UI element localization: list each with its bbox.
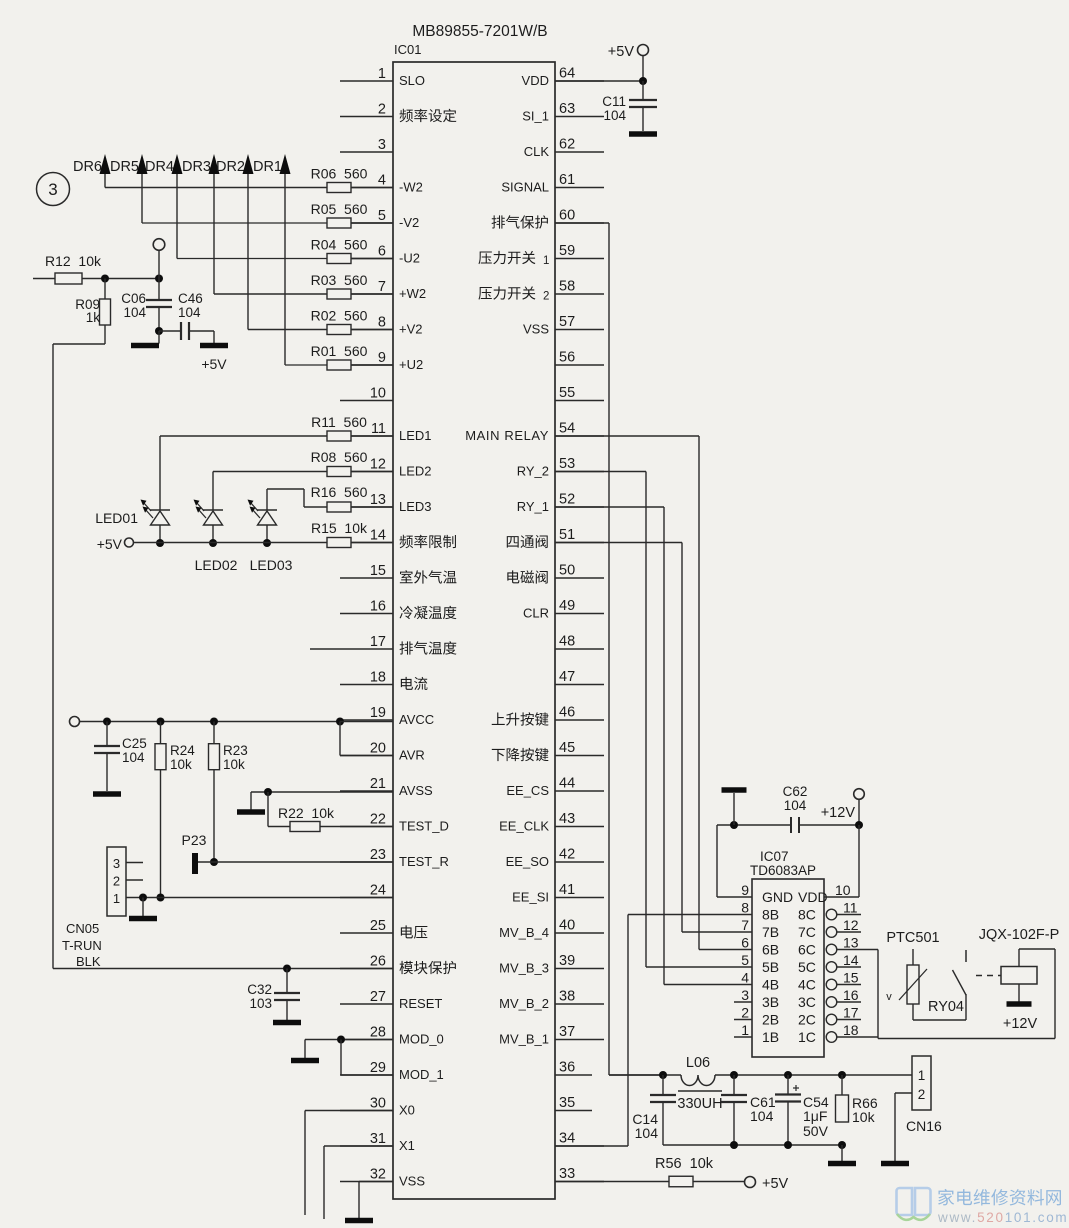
LED LED01: [95, 500, 170, 548]
svg-text:9: 9: [741, 882, 749, 898]
svg-text:EE_SI: EE_SI: [512, 890, 549, 905]
svg-text:64: 64: [559, 66, 575, 82]
capacitor C11 104: [602, 81, 657, 131]
svg-text:GND: GND: [762, 889, 793, 905]
IC01 pin 41 EE_SI: [512, 882, 604, 905]
svg-text:MV_B_1: MV_B_1: [499, 1032, 549, 1047]
svg-text:EE_CLK: EE_CLK: [499, 819, 549, 834]
ground at VSS pin32: [345, 1218, 373, 1224]
wire R12 to node A: [82, 275, 159, 283]
svg-text:40: 40: [559, 918, 575, 934]
svg-text:19: 19: [370, 705, 386, 721]
svg-text:54: 54: [559, 421, 575, 437]
svg-text:104: 104: [178, 305, 201, 320]
ground under CN16 pin2: [881, 1161, 909, 1167]
ground under C25: [93, 791, 121, 797]
diode phase-drive line DR3 (arrow up): [182, 154, 220, 294]
IC07 pin 7 7B: [741, 917, 779, 940]
svg-text:SI_1: SI_1: [522, 109, 549, 124]
svg-text:6: 6: [378, 244, 386, 260]
svg-text:330UH: 330UH: [677, 1096, 722, 1112]
wire pin51 four-way-valve to 7B: [555, 543, 752, 933]
wire pin23 TEST_R: [198, 861, 393, 863]
IC01 pin 46 上升按键: [492, 705, 604, 726]
svg-text:3C: 3C: [798, 994, 816, 1010]
IC01 pin 56: [555, 350, 604, 366]
diode phase-drive line DR4 (arrow up): [145, 154, 183, 259]
svg-text:R01 560: R01 560: [311, 343, 368, 359]
ground at IC07 GND: [722, 787, 747, 829]
resistor R04 560: [311, 237, 393, 264]
svg-text:IC01: IC01: [394, 42, 421, 57]
svg-text:8: 8: [741, 900, 749, 916]
svg-text:X0: X0: [399, 1103, 415, 1118]
IC01 pin 28 MOD_0: [340, 1025, 444, 1047]
svg-text:14: 14: [370, 528, 386, 544]
relay JQX-102F-P label: [979, 927, 1060, 943]
svg-text:4: 4: [741, 970, 749, 986]
connector CN16: [906, 1056, 942, 1134]
svg-text:45: 45: [559, 740, 575, 756]
diode phase-drive line DR1 (arrow up): [253, 154, 291, 365]
IC07 pin 1 1B: [734, 1022, 779, 1045]
svg-text:www.520101.com: www.520101.com: [937, 1210, 1068, 1225]
svg-text:33: 33: [559, 1166, 575, 1182]
svg-text:PTC501: PTC501: [886, 930, 939, 946]
svg-text:C11: C11: [602, 94, 626, 109]
svg-text:104: 104: [123, 305, 146, 320]
+5V rail bar under C46: [200, 331, 228, 372]
svg-text:6C: 6C: [798, 942, 816, 958]
svg-text:44: 44: [559, 776, 575, 792]
wire DR2 to R02: [248, 329, 327, 331]
IC01 pin 63 SI_1: [522, 101, 604, 124]
IC01 pin 45 下降按键: [492, 740, 604, 761]
svg-text:3: 3: [48, 180, 57, 199]
wire DR4 to R04: [177, 258, 327, 260]
+5V terminal for LEDs: [97, 536, 134, 552]
relay coil RY04/JQX: [1001, 967, 1037, 985]
svg-text:1: 1: [378, 66, 386, 82]
svg-text:15: 15: [370, 563, 386, 579]
+5V terminal top right: [608, 44, 649, 60]
IC01 pin 1 SLO: [340, 66, 425, 88]
svg-text:+5V: +5V: [201, 356, 227, 372]
svg-text:LED02: LED02: [195, 557, 238, 573]
IC U2: IC07 TD6083AP body: [750, 849, 824, 1057]
svg-text:-V2: -V2: [399, 215, 419, 230]
svg-text:+5V: +5V: [608, 44, 635, 60]
svg-text:BLK: BLK: [76, 954, 101, 969]
resistor R23 10k: [209, 722, 248, 773]
IC01 pin 19 AVCC: [340, 705, 434, 727]
svg-text:13: 13: [370, 492, 386, 508]
svg-text:8: 8: [378, 315, 386, 331]
svg-text:3: 3: [741, 987, 749, 1003]
IC01 pin 60 排气保护: [492, 208, 604, 229]
IC01 pin 30 X0: [340, 1096, 415, 1118]
svg-text:24: 24: [370, 883, 386, 899]
relay contact RY04: [928, 950, 966, 1015]
+12V terminal at IC07 VDD: [821, 789, 865, 829]
wire pin11 to LED01: [160, 436, 327, 510]
svg-text:9: 9: [378, 350, 386, 366]
IC01 pin 23 TEST_R: [340, 847, 449, 869]
svg-text:C62: C62: [783, 784, 808, 799]
svg-text:R05 560: R05 560: [311, 201, 368, 217]
svg-text:LED2: LED2: [399, 464, 432, 479]
svg-text:16: 16: [370, 599, 386, 615]
svg-text:JQX-102F-P: JQX-102F-P: [979, 927, 1060, 943]
IC01 pin 18 电流: [340, 670, 427, 691]
IC01 pin 44 EE_CS: [506, 776, 604, 799]
svg-text:32: 32: [370, 1167, 386, 1183]
svg-text:R03 560: R03 560: [311, 272, 368, 288]
IC01 pin 31 X1: [340, 1131, 415, 1153]
svg-text:-W2: -W2: [399, 180, 423, 195]
IC01 pin 36: [555, 1060, 592, 1076]
svg-text:MOD_0: MOD_0: [399, 1032, 444, 1047]
IC01 pin 35: [555, 1095, 592, 1111]
svg-text:16: 16: [843, 987, 859, 1003]
svg-text:DR3: DR3: [182, 159, 211, 175]
svg-text:55: 55: [559, 385, 575, 401]
svg-text:5C: 5C: [798, 959, 816, 975]
resistor R02 560: [311, 308, 393, 335]
wire pin13 to LED03: [267, 489, 327, 510]
resistor R56 10k: [655, 1156, 714, 1187]
svg-text:51: 51: [559, 527, 575, 543]
svg-text:1: 1: [113, 891, 120, 906]
svg-text:MV_B_2: MV_B_2: [499, 996, 549, 1011]
svg-text:60: 60: [559, 208, 575, 224]
svg-text:IC07: IC07: [760, 849, 789, 864]
wire MOD_1 branch pin29: [341, 1040, 393, 1076]
svg-text:14: 14: [843, 952, 859, 968]
+5V terminal at R56: [693, 1176, 789, 1192]
svg-text:LED03: LED03: [250, 557, 293, 573]
IC07 pin 11 8C: [798, 900, 861, 923]
svg-text:63: 63: [559, 101, 575, 117]
svg-text:4B: 4B: [762, 977, 779, 993]
wire DR5 to R05: [142, 222, 327, 224]
svg-text:DR4: DR4: [145, 159, 174, 175]
svg-text:10k: 10k: [852, 1109, 876, 1125]
svg-text:2: 2: [113, 874, 120, 889]
IC01 pin 34: [555, 1131, 604, 1147]
IC01 pin 4 -W2: [340, 173, 423, 195]
svg-text:2: 2: [741, 1005, 749, 1021]
IC01 pin 20 AVR: [340, 741, 425, 763]
svg-text:58: 58: [559, 279, 575, 295]
resistor R16 560: [311, 484, 393, 512]
resistor R24 10k: [155, 722, 195, 773]
svg-text:T-RUN: T-RUN: [62, 938, 102, 953]
svg-text:AVCC: AVCC: [399, 712, 434, 727]
svg-text:10k: 10k: [223, 757, 245, 772]
svg-text:21: 21: [370, 776, 386, 792]
IC01 pin 7 +W2: [340, 279, 426, 301]
svg-text:104: 104: [603, 108, 626, 123]
IC01 pin 47: [555, 669, 604, 685]
capacitor C32 103: [247, 969, 300, 1021]
svg-text:C06: C06: [121, 291, 146, 306]
ground at MOD_0: [291, 1040, 319, 1064]
IC01 pin 8 +V2: [340, 315, 423, 337]
IC01 pin 29 MOD_1: [340, 1060, 444, 1082]
IC01 pin 17 排气温度: [340, 634, 456, 655]
ground under R66: [828, 1145, 856, 1166]
IC07 pin 14 5C: [798, 952, 861, 975]
LED LED02: [194, 500, 238, 574]
svg-text:+12V: +12V: [1003, 1016, 1038, 1032]
svg-text:AVSS: AVSS: [399, 783, 433, 798]
IC07 pin 16 3C: [798, 987, 861, 1010]
svg-text:53: 53: [559, 456, 575, 472]
capacitor C14 104: [632, 1075, 676, 1145]
IC01 pin 16 冷凝温度: [340, 599, 456, 620]
svg-text:30: 30: [370, 1096, 386, 1112]
IC07 pin 12 7C: [798, 917, 861, 940]
svg-text:C46: C46: [178, 291, 203, 306]
wire DR1 to R01: [285, 364, 327, 366]
wire R23 to pin23 net: [210, 770, 218, 867]
svg-text:MOD_1: MOD_1: [399, 1067, 444, 1082]
svg-text:5: 5: [378, 208, 386, 224]
IC01 pin 50 电磁阀: [507, 563, 604, 584]
svg-text:MV_B_3: MV_B_3: [499, 961, 549, 976]
svg-text:26: 26: [370, 954, 386, 970]
svg-text:+U2: +U2: [399, 357, 423, 372]
svg-text:5B: 5B: [762, 959, 779, 975]
svg-text:1k: 1k: [86, 310, 101, 325]
svg-text:+W2: +W2: [399, 286, 426, 301]
wire pin17 stub extension: [310, 648, 340, 650]
wire VDD pin64 node: [555, 56, 647, 86]
resistor R11 560: [311, 414, 393, 441]
test point P23: [182, 832, 207, 874]
svg-text:7C: 7C: [798, 924, 816, 940]
LED LED03: [248, 500, 293, 574]
wire CN16 pin2 to ground: [895, 1093, 912, 1161]
IC01 pin 64 VDD: [522, 66, 604, 89]
diode phase-drive line DR6 (arrow up): [73, 154, 111, 188]
svg-text:R11 560: R11 560: [311, 414, 367, 430]
svg-text:17: 17: [843, 1005, 859, 1021]
svg-text:1: 1: [741, 1022, 749, 1038]
svg-text:SIGNAL: SIGNAL: [501, 180, 549, 195]
svg-text:104: 104: [750, 1108, 774, 1124]
svg-text:VSS: VSS: [523, 322, 549, 337]
IC01 pin 13 LED3: [340, 492, 432, 514]
svg-text:39: 39: [559, 953, 575, 969]
svg-text:v: v: [886, 991, 892, 1003]
wire DR6 to R06: [105, 187, 327, 189]
inductor L06 330UH: [677, 1055, 722, 1112]
svg-text:10: 10: [835, 882, 851, 898]
connector CN05: [62, 847, 143, 969]
terminal (open) AVCC: [70, 717, 80, 727]
IC01 pin 59 压力开关: [478, 243, 604, 267]
svg-text:RY_2: RY_2: [517, 464, 549, 479]
svg-text:8B: 8B: [762, 907, 779, 923]
svg-text:EE_SO: EE_SO: [506, 854, 549, 869]
IC01 pin 55: [555, 385, 604, 401]
svg-text:2: 2: [918, 1087, 926, 1102]
svg-text:R02 560: R02 560: [311, 308, 368, 324]
IC07 pin 5 5B: [741, 952, 779, 975]
node A junction: [155, 275, 163, 283]
dashed mechanical link: [976, 975, 1001, 977]
wire DR3 to R03: [214, 293, 327, 295]
ground at AVSS: [237, 792, 265, 815]
svg-text:12: 12: [370, 457, 386, 473]
IC01 pin 58 压力开关: [478, 279, 604, 303]
svg-text:EE_CS: EE_CS: [506, 783, 549, 798]
svg-text:2: 2: [543, 291, 549, 303]
svg-text:1C: 1C: [798, 1029, 816, 1045]
resistor R22 10k: [268, 792, 393, 832]
svg-text:R23: R23: [223, 743, 248, 758]
svg-text:52: 52: [559, 492, 575, 508]
svg-text:59: 59: [559, 243, 575, 259]
svg-text:R12 10k: R12 10k: [45, 253, 102, 269]
ground under C32: [273, 1020, 301, 1026]
wire R24 to pin24 net: [157, 770, 165, 902]
svg-text:3: 3: [378, 137, 386, 153]
svg-text:L06: L06: [686, 1055, 710, 1071]
svg-text:VDD: VDD: [798, 889, 828, 905]
svg-text:1B: 1B: [762, 1029, 779, 1045]
svg-text:CN16: CN16: [906, 1118, 942, 1134]
svg-text:+12V: +12V: [821, 805, 856, 821]
IC07 pin 6 6B: [741, 935, 779, 958]
resistor R66 10k: [836, 1075, 878, 1125]
svg-text:7B: 7B: [762, 924, 779, 940]
svg-text:R22 10k: R22 10k: [278, 805, 335, 821]
IC07 pin 8 8B: [741, 900, 779, 923]
svg-text:7: 7: [741, 917, 749, 933]
ground under CN05 pin1: [129, 898, 157, 922]
IC07 pin 13 6C: [798, 935, 878, 958]
wire L06 node rail: [609, 1071, 912, 1079]
wire pin28 MOD_0: [305, 1036, 393, 1044]
IC01 pin 51 四通阀: [507, 527, 604, 548]
wire left bus down to pin 26 net: [52, 344, 54, 969]
IC01 pin 6 -U2: [340, 244, 420, 266]
svg-text:50: 50: [559, 563, 575, 579]
svg-text:27: 27: [370, 989, 386, 1005]
svg-text:4C: 4C: [798, 977, 816, 993]
svg-text:62: 62: [559, 137, 575, 153]
svg-text:3: 3: [113, 856, 120, 871]
IC01 pin 5 -V2: [340, 208, 419, 230]
svg-text:15: 15: [843, 970, 859, 986]
svg-text:CLK: CLK: [524, 144, 550, 159]
svg-text:1: 1: [918, 1068, 926, 1083]
svg-text:DR1: DR1: [253, 159, 282, 175]
svg-text:MB89855-7201W/B: MB89855-7201W/B: [412, 23, 547, 40]
svg-text:R15 10k: R15 10k: [311, 520, 368, 536]
resistor R01 560: [311, 343, 393, 370]
IC01 pin 14 频率限制: [340, 528, 456, 549]
svg-text:1: 1: [543, 255, 549, 267]
IC07 pin 4 4B: [741, 970, 779, 993]
svg-text:2B: 2B: [762, 1012, 779, 1028]
IC07 pin 9 GND: [741, 882, 793, 905]
IC07 pin 3 3B: [734, 987, 779, 1010]
IC01 pin 43 EE_CLK: [499, 811, 604, 834]
wire pin60 bus down to L06 node: [555, 223, 663, 1075]
wire pin53 RY_2 to 5B: [555, 472, 752, 968]
wire pin31 X1 down: [324, 1146, 393, 1219]
wire pin54 MAIN RELAY to 6B: [555, 436, 752, 950]
capacitor C46 104: [159, 291, 214, 340]
svg-text:MV_B_4: MV_B_4: [499, 925, 549, 940]
svg-text:43: 43: [559, 811, 575, 827]
svg-text:TD6083AP: TD6083AP: [750, 863, 816, 878]
svg-text:+5V: +5V: [97, 536, 123, 552]
IC01 pin 27 RESET: [340, 989, 442, 1011]
svg-text:RY_1: RY_1: [517, 499, 549, 514]
svg-text:R16 560: R16 560: [311, 484, 368, 500]
svg-text:VDD: VDD: [522, 73, 549, 88]
sheet node circle 3: [37, 173, 70, 206]
svg-text:CLR: CLR: [523, 606, 549, 621]
svg-text:DR6: DR6: [73, 159, 102, 175]
svg-text:4: 4: [378, 173, 386, 189]
svg-text:104: 104: [635, 1125, 659, 1141]
svg-text:28: 28: [370, 1025, 386, 1041]
wire pin52 RY_1 to 4B: [555, 507, 752, 985]
IC01 pin 62 CLK: [524, 137, 604, 160]
resistor R12 10k: [45, 253, 102, 284]
svg-text:12: 12: [843, 917, 859, 933]
svg-text:+5V: +5V: [762, 1176, 789, 1192]
svg-text:11: 11: [371, 421, 386, 437]
IC01 pin 9 +U2: [340, 350, 423, 372]
IC01 pin 12 LED2: [340, 457, 432, 479]
svg-text:20: 20: [370, 741, 386, 757]
IC01 pin 61 SIGNAL: [501, 172, 604, 195]
svg-text:AVR: AVR: [399, 748, 425, 763]
svg-text:10k: 10k: [170, 757, 192, 772]
svg-text:36: 36: [559, 1060, 575, 1076]
IC01 pin 33: [555, 1166, 604, 1182]
svg-text:R06 560: R06 560: [311, 166, 368, 182]
svg-text:LED01: LED01: [95, 510, 138, 526]
svg-text:10: 10: [370, 386, 386, 402]
svg-text:R08 560: R08 560: [311, 449, 368, 465]
resistor R06 560: [311, 166, 393, 193]
svg-text:48: 48: [559, 634, 575, 650]
IC01 pin 38 MV_B_2: [499, 989, 604, 1012]
svg-text:VSS: VSS: [399, 1174, 425, 1189]
svg-text:25: 25: [370, 918, 386, 934]
wire AVCC rail: [80, 718, 394, 726]
svg-text:35: 35: [559, 1095, 575, 1111]
svg-text:DR2: DR2: [216, 159, 245, 175]
wire filter bottom rail: [663, 1141, 846, 1149]
IC01 pin 54 MAIN RELAY: [465, 421, 604, 444]
resistor R08 560: [311, 449, 393, 477]
wire pin12 to LED02: [213, 472, 327, 511]
ground under C11: [629, 131, 657, 137]
svg-text:6: 6: [741, 935, 749, 951]
svg-text:29: 29: [370, 1060, 386, 1076]
capacitor C54 1uF 50V (electrolytic): [775, 1075, 829, 1145]
svg-text:3B: 3B: [762, 994, 779, 1010]
